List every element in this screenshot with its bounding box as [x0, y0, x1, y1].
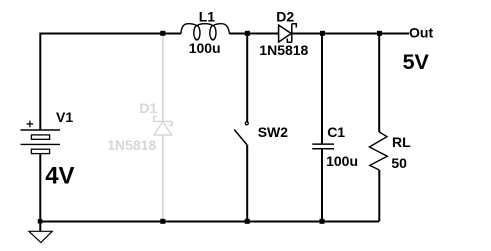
svg-text:D1: D1	[139, 100, 157, 116]
node dot bottom SW2	[245, 219, 250, 224]
svg-text:SW2: SW2	[258, 124, 289, 140]
svg-text:4V: 4V	[45, 163, 74, 190]
node dot top D1	[160, 31, 165, 36]
diode D2 (schottky)	[279, 24, 297, 43]
svg-text:1N5818: 1N5818	[107, 137, 156, 153]
svg-text:Out: Out	[409, 25, 433, 41]
diode D1 (ghost, schottky, pointing up)	[154, 34, 173, 222]
plus sign (V1)	[27, 121, 34, 128]
svg-text:100u: 100u	[189, 40, 221, 56]
svg-text:D2: D2	[276, 9, 294, 25]
wire top rail middle segment	[229, 33, 278, 35]
switch SW2	[246, 34, 248, 122]
ground	[39, 222, 41, 232]
battery V1	[21, 130, 61, 154]
node dot top C1	[320, 31, 325, 36]
capacitor C1	[321, 34, 323, 145]
svg-text:C1: C1	[327, 124, 345, 140]
inductor L1	[181, 24, 230, 40]
wire bottom rail	[40, 221, 379, 223]
svg-text:L1: L1	[199, 8, 216, 24]
wire battery bottom lead	[39, 154, 41, 222]
svg-text:RL: RL	[392, 134, 411, 150]
svg-text:1N5818: 1N5818	[259, 42, 308, 58]
node dot bottom D1	[160, 219, 165, 224]
svg-text:50: 50	[391, 155, 407, 171]
node dot bottom battery	[38, 219, 43, 224]
svg-text:100u: 100u	[326, 153, 358, 169]
wire top rail left segment	[40, 34, 181, 131]
node dot top SW2	[245, 31, 250, 36]
resistor RL	[378, 34, 380, 133]
svg-text:5V: 5V	[403, 50, 430, 74]
node dot top RL	[377, 31, 382, 36]
wire top rail right segment to Out	[292, 33, 409, 35]
node dot bottom C1	[320, 219, 325, 224]
svg-text:V1: V1	[56, 109, 73, 125]
